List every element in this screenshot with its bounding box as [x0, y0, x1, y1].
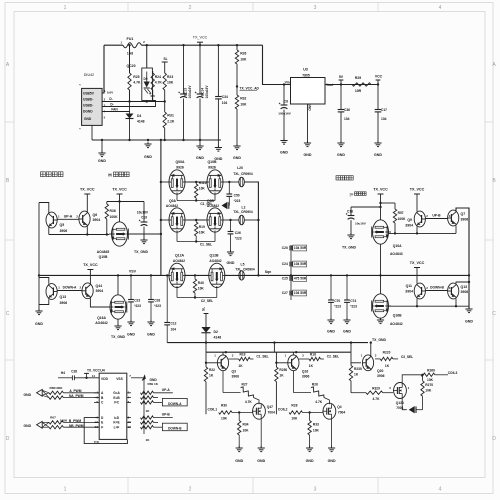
wire Q44 emitter to gate [90, 298, 109, 307]
svg-text:C: C [6, 311, 10, 317]
capacitor C28 223 [148, 274, 161, 322]
svg-text:Q6: Q6 [93, 213, 98, 217]
ground sym Q4 [328, 446, 336, 463]
power flag TX_VCC Q6 [80, 188, 95, 212]
svg-text:GND: GND [147, 333, 155, 337]
svg-text:I=C: I=C [114, 401, 120, 405]
svg-text:Vin: Vin [285, 81, 290, 85]
transistor Q20 3906 [351, 341, 385, 378]
svg-text:3906: 3906 [461, 290, 469, 294]
svg-text:Q10A: Q10A [393, 244, 402, 248]
wire row2 to bus right [244, 214, 259, 275]
svg-text:R28: R28 [291, 404, 297, 408]
svg-text:GND: GND [337, 153, 345, 157]
net COIL3 [448, 371, 458, 375]
wire UP-A between Q5 Q6 [57, 214, 79, 219]
svg-text:3906: 3906 [60, 229, 68, 233]
svg-text:TX_VCC: TX_VCC [80, 188, 95, 192]
svg-text:FAN: FAN [111, 108, 118, 112]
svg-text:R25: R25 [133, 75, 139, 79]
svg-text:Q20: Q20 [377, 369, 384, 373]
svg-text:GND: GND [84, 117, 92, 121]
svg-text:A: A [492, 62, 496, 68]
transistor Q6 3904 [79, 211, 100, 227]
input port GND 1 [24, 389, 50, 397]
svg-text:4.7K: 4.7K [315, 400, 323, 404]
svg-text:10K: 10K [199, 230, 206, 234]
svg-text:L20: L20 [237, 166, 243, 170]
svg-text:2.2K: 2.2K [167, 120, 175, 124]
section label H桥驱动 right [350, 192, 367, 197]
svg-text:GND: GND [127, 333, 135, 337]
capacitor C34 104 [215, 45, 228, 140]
svg-text:C74: C74 [350, 299, 356, 303]
svg-text:COIL2: COIL2 [278, 407, 288, 411]
svg-text:R66100K: R66100K [49, 386, 63, 390]
svg-text:GND: GND [233, 156, 241, 160]
svg-text:GND: GND [465, 320, 473, 324]
svg-text:GND: GND [257, 459, 265, 463]
svg-text:*: * [79, 128, 81, 132]
svg-text:B: B [492, 178, 496, 184]
svg-text:4: 4 [439, 487, 442, 493]
IC U4 pin rows [94, 391, 131, 430]
svg-text:R250: R250 [279, 368, 287, 372]
svg-text:C2_SEL: C2_SEL [327, 355, 339, 359]
wire Q4 source gnd [331, 418, 333, 448]
svg-text:H: H [108, 172, 112, 178]
svg-text:*223: *223 [235, 237, 242, 241]
svg-text:USB5V: USB5V [83, 91, 95, 95]
ground sym under IC [98, 139, 106, 163]
transistor Q7 3906 [448, 210, 469, 226]
svg-text:C24: C24 [282, 262, 288, 266]
wire Q5 collector up [39, 203, 49, 213]
svg-text:2: 2 [79, 286, 81, 290]
net UP-B out [154, 413, 173, 418]
resistor R27 4.7K [223, 371, 259, 404]
svg-text:*223: *223 [154, 304, 161, 308]
svg-text:VSV: VSV [129, 269, 137, 273]
net VSV label [129, 269, 137, 273]
net DOWN-A out [154, 398, 188, 406]
svg-text:10u16V: 10u16V [137, 211, 149, 215]
wire C18 stub [351, 206, 381, 208]
svg-text:GND: GND [35, 322, 43, 326]
svg-text:1: 1 [408, 386, 410, 390]
svg-text:C18: C18 [347, 210, 353, 214]
svg-text:TX_VCC: TX_VCC [373, 188, 388, 192]
junction dots top bus [128, 44, 238, 46]
svg-text:Q4: Q4 [337, 405, 342, 409]
resistor R25 4.7K [128, 45, 141, 101]
ground flag TX_GND C18 [342, 233, 357, 250]
IC U1 DIU42 [79, 73, 106, 132]
resistor R270 1K [421, 375, 433, 410]
svg-text:C50: C50 [234, 194, 240, 198]
svg-text:R27: R27 [242, 383, 248, 387]
svg-text:GND: GND [343, 330, 351, 334]
svg-text:1A8: 1A8 [127, 52, 133, 56]
svg-text:100K: 100K [398, 217, 406, 221]
rail VSV y275.4 [39, 274, 469, 276]
svg-text:Q16: Q16 [302, 369, 309, 373]
inductor L5 [235, 262, 255, 280]
svg-text:R32: R32 [240, 97, 246, 101]
resistor R26 10K [235, 45, 259, 95]
svg-text:3904: 3904 [405, 223, 413, 227]
svg-text:DGND: DGND [83, 109, 93, 113]
svg-text:*223: *223 [234, 199, 241, 203]
svg-text:3906: 3906 [302, 375, 310, 379]
svg-text:*223: *223 [350, 305, 357, 309]
svg-text:R260: R260 [427, 369, 435, 373]
ground sym EC14 [196, 140, 204, 160]
transistor Q9 3904 [405, 211, 425, 227]
svg-text:TX_GND: TX_GND [134, 250, 149, 254]
power flag TX_VCC rail [112, 188, 127, 222]
ground sym R32 [233, 144, 241, 160]
svg-text:R34: R34 [243, 423, 249, 427]
svg-text:Q7: Q7 [461, 212, 466, 216]
svg-text:C27: C27 [282, 291, 288, 295]
svg-text:I=D: I=D [114, 416, 120, 420]
svg-text:10K: 10K [425, 388, 432, 392]
svg-text:104: 104 [222, 101, 228, 105]
svg-text:UP-A: UP-A [162, 388, 171, 392]
resistor R260 10K [402, 369, 448, 384]
svg-text:9926: 9926 [176, 166, 184, 170]
power flag TX_VCC top [193, 36, 208, 46]
svg-text:1K: 1K [354, 372, 359, 376]
net 5V [339, 75, 344, 85]
wire gate Q10A [389, 226, 457, 235]
gnd bus y140 [92, 139, 221, 141]
input port GND 2 [24, 421, 50, 428]
svg-text:SL: SL [163, 57, 167, 61]
svg-text:C12: C12 [171, 322, 177, 326]
svg-text:R220: R220 [383, 351, 391, 355]
svg-text:7805: 7805 [302, 73, 310, 77]
svg-text:R26: R26 [240, 52, 246, 56]
wire Q7 collector to right bus [456, 208, 469, 309]
svg-text:10K: 10K [313, 429, 320, 433]
svg-text:Q9: Q9 [407, 218, 412, 222]
resistor R23 10K [163, 73, 174, 102]
resistor R22 1K [204, 352, 215, 414]
capacitor C26 223 [228, 220, 242, 252]
svg-text:7004: 7004 [338, 410, 345, 414]
svg-text:DOWN-A: DOWN-A [63, 285, 77, 289]
svg-text:100u16V: 100u16V [278, 112, 291, 116]
mosfet Q16B AO4842 [372, 294, 403, 326]
capacitor C19 10u16V [137, 202, 149, 241]
svg-text:2: 2 [104, 97, 106, 101]
svg-text:5V: 5V [339, 75, 344, 79]
resistor R28 10K [289, 404, 323, 421]
svg-text:L5: L5 [241, 262, 245, 266]
mosfet Q10B2 9926 [205, 160, 226, 194]
svg-text:1: 1 [64, 487, 67, 493]
svg-text:3906: 3906 [232, 375, 240, 379]
svg-text:R67: R67 [50, 416, 56, 420]
svg-text:R57: R57 [398, 211, 404, 215]
svg-text:104 50R: 104 50R [294, 262, 307, 266]
ground sym C70 [327, 318, 335, 334]
net Sqn [257, 270, 271, 277]
svg-text:Q0B: Q0B [207, 199, 215, 203]
svg-text:D: D [492, 436, 496, 442]
svg-text:TX_GND: TX_GND [372, 338, 387, 342]
svg-text:C1_SEL: C1_SEL [256, 355, 268, 359]
svg-text:0.6V: 0.6V [107, 90, 114, 94]
svg-text:TX_GND: TX_GND [111, 335, 126, 339]
svg-text:GND: GND [227, 261, 235, 265]
resistor R19 1K [229, 352, 269, 368]
resistor R34 10K [238, 413, 250, 449]
svg-text:AO4842: AO4842 [166, 204, 178, 208]
svg-text:Sqn: Sqn [265, 270, 272, 274]
net COIL1 [207, 407, 217, 411]
svg-text:R24: R24 [155, 75, 161, 79]
svg-text:D2: D2 [214, 330, 219, 334]
svg-text:R329: R329 [372, 386, 380, 390]
ground sym U3 [304, 141, 312, 157]
svg-text:U4: U4 [100, 369, 105, 373]
svg-text:AO4845: AO4845 [97, 250, 110, 254]
svg-text:R18: R18 [310, 352, 316, 356]
svg-text:GND: GND [327, 330, 335, 334]
svg-text:Q47: Q47 [267, 405, 273, 409]
svg-text:Q16B: Q16B [393, 314, 402, 318]
svg-text:L=F: L=F [114, 425, 120, 429]
capacitor C12 104 [164, 274, 176, 342]
svg-text:G=A: G=A [113, 391, 120, 395]
ground sym C8 [280, 138, 288, 154]
resistor R57 100K [379, 202, 406, 234]
inductor L20 [233, 166, 253, 187]
svg-text:GND: GND [304, 153, 312, 157]
capacitor C17 104 [375, 85, 387, 144]
svg-text:D4: D4 [137, 114, 141, 118]
resistor R33 10K [308, 413, 320, 449]
resistor R26 4.7K [293, 371, 329, 404]
svg-text:C34: C34 [222, 95, 228, 99]
svg-text:3: 3 [449, 286, 451, 290]
svg-text:FU1: FU1 [127, 37, 134, 41]
svg-text:R19: R19 [240, 352, 246, 356]
svg-text:C28: C28 [71, 369, 77, 373]
rail bottom y342.6 [167, 341, 368, 343]
svg-text:Q12B: Q12B [209, 254, 219, 258]
svg-text:SL: SL [201, 307, 205, 311]
svg-text:[H: [H [350, 192, 354, 196]
svg-text:10K: 10K [167, 81, 174, 85]
svg-text:D-: D- [110, 102, 113, 106]
wire lower gate row [389, 299, 470, 308]
svg-text:4148: 4148 [214, 336, 222, 340]
svg-text:R22: R22 [209, 368, 215, 372]
svg-text:R270: R270 [425, 383, 433, 387]
capacitor C36 104 [338, 85, 350, 144]
power flag TX_VCC Q9 [410, 188, 425, 212]
svg-text:UP-B: UP-B [432, 213, 441, 217]
ground flag TX_GND Q16B [372, 318, 387, 342]
ground flag TX_GND C19 [134, 238, 149, 254]
wire UP-B [425, 213, 450, 218]
section label 驱动电路 left [41, 172, 64, 177]
ground sym Q47 [257, 446, 265, 463]
speaker SP1 [222, 202, 230, 209]
net SL top [162, 57, 168, 73]
svg-text:2: 2 [189, 487, 192, 493]
resistor R29 10R [352, 76, 371, 93]
wire U4 D-row loop [84, 418, 127, 445]
capacitor C70 223 [328, 274, 341, 320]
resistor RU1 2.2K [163, 100, 175, 140]
svg-text:3906: 3906 [377, 374, 385, 378]
ground sym C23 [127, 320, 135, 337]
svg-text:1: 1 [285, 353, 287, 357]
mosfet Q4 7004 [322, 403, 345, 419]
svg-text:VSS: VSS [116, 377, 123, 381]
svg-text:TXL_CR0904: TXL_CR0904 [235, 268, 255, 272]
resistor R230 1K [349, 352, 362, 393]
svg-text:AO4842: AO4842 [207, 204, 219, 208]
svg-text:100K: 100K [110, 215, 119, 219]
capacitor C74 223 [344, 274, 357, 320]
svg-text:GND: GND [308, 103, 312, 111]
wire row D- (y101.5) [102, 90, 165, 102]
svg-text:1K: 1K [279, 374, 284, 378]
svg-text:*223: *223 [334, 305, 341, 309]
wire Q13 collector to rail [39, 278, 49, 284]
resistor R24 4.7K [151, 71, 162, 102]
fuse FU1 [120, 37, 145, 56]
svg-text:USBD-: USBD- [83, 97, 93, 101]
mosfet Q47 7004 [252, 403, 275, 419]
wire Q16A drain to rail [117, 274, 119, 295]
svg-text:F: F [101, 425, 103, 429]
wire gate row2 C1_SEL [177, 231, 215, 247]
svg-text:Q44: Q44 [96, 284, 103, 288]
svg-text:Q16A: Q16A [97, 316, 106, 320]
ground sym C28 [147, 320, 155, 337]
svg-text:2: 2 [189, 5, 192, 11]
mosfet Q00A 9926 [167, 160, 188, 194]
resistor R32 10K [235, 95, 247, 146]
svg-text:GND: GND [98, 159, 106, 163]
svg-text:C70: C70 [334, 299, 340, 303]
power flag TX_VCC Q44 [83, 263, 98, 283]
transistor Q16 3906 [275, 352, 309, 378]
svg-text:U3: U3 [303, 68, 308, 72]
svg-text:C2_SEL: C2_SEL [201, 299, 213, 303]
resistor R110 10K [195, 181, 207, 201]
svg-text:C8: C8 [284, 100, 288, 104]
svg-text:475 50R: 475 50R [294, 277, 307, 281]
svg-text:Q5: Q5 [60, 223, 65, 227]
resistor R19 10K row2 [195, 219, 206, 242]
svg-text:1: 1 [214, 353, 216, 357]
svg-text:DOWN-B: DOWN-B [430, 285, 444, 289]
svg-text:104: 104 [381, 117, 387, 121]
svg-text:R33: R33 [313, 423, 319, 427]
svg-text:3: 3 [389, 386, 391, 390]
svg-text:10K: 10K [243, 429, 250, 433]
resistor array outputs [141, 378, 154, 442]
svg-text:TX_VCC: TX_VCC [193, 36, 208, 40]
svg-text:3904: 3904 [405, 289, 413, 293]
svg-text:Q130: Q130 [396, 401, 404, 405]
ground sym R34 [235, 446, 243, 463]
inductor L2 [233, 205, 253, 224]
svg-text:GND: GND [196, 156, 204, 160]
svg-text:104: 104 [344, 117, 350, 121]
svg-text:4.7K: 4.7K [133, 81, 141, 85]
svg-text:TXL_CR0904: TXL_CR0904 [233, 172, 253, 176]
power flag TX_VCC Q11 [410, 261, 425, 283]
svg-text:2: 2 [426, 214, 428, 218]
wire row1 [161, 181, 239, 183]
svg-text:K=E: K=E [113, 421, 119, 425]
svg-text:3906: 3906 [461, 218, 469, 222]
svg-text:C19: C19 [141, 216, 147, 220]
svg-text:1K: 1K [209, 374, 214, 378]
net UP-A out [154, 388, 173, 393]
section label 驱动电路 right [336, 176, 353, 180]
svg-text:10K: 10K [240, 58, 247, 62]
svg-text:7004: 7004 [268, 410, 275, 414]
svg-text:C3_SEL: C3_SEL [401, 355, 413, 359]
svg-text:3906: 3906 [60, 301, 68, 305]
mosfet Q12A AO4842 [167, 254, 188, 288]
svg-text:TX_VCC: TX_VCC [410, 261, 425, 265]
svg-text:USBD-: USBD- [83, 103, 93, 107]
svg-text:3904: 3904 [93, 218, 101, 222]
gnd arrow U4 right [131, 374, 159, 386]
svg-text:GND: GND [306, 459, 314, 463]
svg-text:UP-B: UP-B [162, 413, 171, 417]
wire Q13 emitter gnd [39, 299, 49, 304]
svg-text:1: 1 [120, 40, 122, 44]
svg-text:*: * [79, 84, 81, 88]
svg-text:COIL1: COIL1 [207, 407, 217, 411]
svg-text:*223: *223 [134, 304, 141, 308]
svg-text:2: 2 [426, 286, 428, 290]
svg-text:A: A [6, 62, 10, 68]
svg-text:10K: 10K [427, 378, 434, 382]
resistor R250 1K [275, 352, 288, 414]
svg-text:10K: 10K [291, 417, 298, 421]
svg-text:COIL3: COIL3 [448, 371, 458, 375]
svg-text:1: 1 [64, 5, 67, 11]
svg-text:C28: C28 [154, 299, 160, 303]
svg-text:B: B [6, 178, 10, 184]
diode D2 4148 [201, 327, 221, 343]
ground flag TX_GND Q16A [111, 324, 126, 339]
mosfet Q16A AO4842 [95, 295, 127, 325]
svg-text:100u16V: 100u16V [205, 85, 209, 99]
svg-text:R110: R110 [199, 181, 207, 185]
svg-text:R29: R29 [355, 76, 361, 80]
wire Q47 source gnd [260, 418, 262, 448]
ground sym right bus [465, 307, 473, 324]
wire row D- (y106.5) [102, 101, 156, 107]
svg-text:10K: 10K [199, 186, 206, 190]
svg-text:Q3: Q3 [232, 369, 237, 373]
svg-text:TX_VCC: TX_VCC [410, 188, 425, 192]
